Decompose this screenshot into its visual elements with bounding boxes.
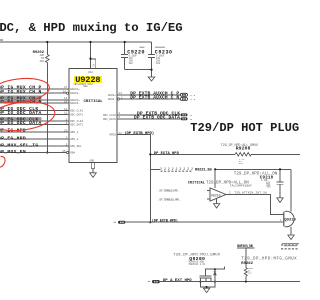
svg-text:DP_EG_ODC_DATA: DP_EG_ODC_DATA bbox=[0, 120, 42, 126]
connector pill ODC CLK bbox=[181, 113, 188, 116]
body diode Q9280 bbox=[214, 269, 216, 281]
svg-text:ODC_DAT1: ODC_DAT1 bbox=[70, 113, 83, 116]
svg-text:ODC_CLK0: ODC_CLK0 bbox=[103, 114, 116, 117]
svg-text:TALCOMPS1BUF: TALCOMPS1BUF bbox=[230, 185, 252, 188]
wire net DP_EG_ODC_DATA to pin 8 bbox=[0, 124, 69, 126]
svg-text:AUX0+: AUX0+ bbox=[108, 94, 116, 97]
gnd stem below loop bbox=[206, 287, 208, 288]
junction C9220/rail bbox=[124, 41, 126, 43]
junction VDD/rail bbox=[89, 41, 91, 43]
resistor R9282 bbox=[244, 268, 247, 277]
connector pill EXTB HPD bbox=[118, 221, 125, 224]
pin bubble DAUX1- bbox=[66, 92, 68, 94]
wire HPD vertical to EXTB line bbox=[149, 154, 151, 222]
svg-text:24: 24 bbox=[92, 63, 95, 66]
wire net DP_EG_MUX_CH_P to pin 13 bbox=[0, 99, 69, 101]
resistor R9202 bbox=[46, 55, 50, 63]
capacitor C9220 bbox=[121, 54, 128, 57]
tiny marks above cap labels bbox=[140, 47, 166, 48]
svg-text:HPD0: HPD0 bbox=[109, 134, 116, 137]
wire buffer inputs bbox=[207, 191, 210, 200]
svg-text:12: 12 bbox=[64, 108, 68, 111]
svg-text:402: 402 bbox=[129, 62, 134, 65]
ground under C9210 bbox=[277, 198, 283, 203]
connector pill AUX P bbox=[180, 93, 187, 100]
svg-text:DAUX1-: DAUX1- bbox=[70, 92, 80, 95]
wire top power rail bbox=[0, 41, 152, 43]
source loop bbox=[200, 282, 215, 287]
ground under IC bbox=[90, 173, 97, 178]
wire capacitor C9230 drop bbox=[151, 42, 153, 70]
junction caps-gnd bbox=[150, 69, 152, 71]
svg-text:11: 11 bbox=[64, 112, 68, 115]
svg-text:DP_EXTB_AUXCH_C_N: DP_EXTB_AUXCH_C_N bbox=[130, 95, 179, 101]
svg-text:402: 402 bbox=[39, 60, 44, 63]
wire buffer power stub bbox=[214, 169, 216, 188]
net labels left bbox=[0, 85, 42, 155]
wire VDD drop bbox=[90, 42, 92, 69]
wire buffer gnd stem bbox=[216, 198, 218, 203]
svg-text:CRITICAL: CRITICAL bbox=[84, 100, 104, 104]
svg-text:ODC_DAT0: ODC_DAT0 bbox=[103, 118, 116, 121]
U9228 highlight bbox=[74, 76, 102, 83]
red annotation ellipse 1 bbox=[0, 76, 51, 106]
svg-text:(DP_EXTB_HPD): (DP_EXTB_HPD) bbox=[124, 131, 154, 136]
transistor Q9210 bbox=[284, 211, 294, 235]
junction R9202/rail bbox=[46, 41, 48, 43]
tiny table marks top-right of bottom section bbox=[281, 244, 298, 249]
svg-text:DP_IG_ODC_DATA: DP_IG_ODC_DATA bbox=[0, 110, 42, 116]
junction R9202 to DP_MUX_EN bbox=[46, 151, 48, 153]
svg-text:Q9210: Q9210 bbox=[284, 218, 296, 222]
wire net DP_EG_HPD to pin 7 bbox=[0, 138, 69, 140]
junction C9210 bbox=[279, 168, 281, 170]
junction Q9280 top bbox=[214, 268, 216, 270]
node 0 top-left rail stub mark bbox=[0, 39, 3, 40]
svg-text:17: 17 bbox=[64, 86, 68, 89]
svg-text:ODC, & HPD muxing to IG/EG: ODC, & HPD muxing to IG/EG bbox=[0, 21, 183, 35]
wire net DP_MUX_EN to pin 25 bbox=[0, 152, 66, 154]
op-amp U9228 IC body bbox=[69, 69, 117, 163]
connector pill DP_A_EXT_HPD bbox=[152, 280, 160, 283]
wire net DP_EG_ODC_CLK to pin 9 bbox=[0, 120, 69, 122]
resistor R9202 labels bbox=[33, 51, 45, 63]
junction R9221/buffer bbox=[214, 168, 216, 170]
svg-text:AUX0-: AUX0- bbox=[108, 98, 116, 101]
svg-text:20: 20 bbox=[63, 91, 67, 94]
pin box VDD pin 24 bbox=[91, 59, 96, 69]
wire net DP_EXTB_ODC_DATA pin 5 bbox=[117, 118, 180, 120]
svg-text:HPD_2: HPD_2 bbox=[70, 138, 78, 141]
svg-text:14: 14 bbox=[64, 101, 68, 104]
IC internal pin names left bbox=[70, 88, 83, 155]
svg-text:T29_ATTKIN_INT_3A: T29_ATTKIN_INT_3A bbox=[234, 191, 267, 195]
svg-text:DP_A_EXT_HPD: DP_A_EXT_HPD bbox=[163, 279, 192, 283]
svg-text:DP_EXTA_HPD: DP_EXTA_HPD bbox=[154, 152, 180, 156]
svg-text:DP_MUX_SEL_IG: DP_MUX_SEL_IG bbox=[0, 142, 38, 148]
wire net DP_IG_ODC_CLK to pin 12 bbox=[0, 110, 69, 112]
wire net DP_IG_HPD to pin 23 bbox=[0, 131, 69, 133]
svg-text:CRITICAL: CRITICAL bbox=[188, 182, 205, 186]
svg-text:T29/DP HOT PLUG: T29/DP HOT PLUG bbox=[190, 121, 299, 135]
wire Q9280 top bbox=[206, 267, 225, 276]
svg-text:25: 25 bbox=[62, 150, 66, 153]
wire R9221 row bbox=[150, 168, 291, 170]
junction Q9280 drain bbox=[199, 281, 201, 283]
red annotation mark bottom-left bbox=[0, 156, 5, 167]
junction HPD/EXTA bbox=[149, 153, 151, 155]
svg-text:HPD_1: HPD_1 bbox=[70, 131, 78, 134]
ground under buffer bbox=[214, 204, 220, 208]
channel bar bbox=[200, 277, 212, 279]
capacitor C9210 bbox=[277, 182, 284, 184]
svg-text:11 B: 11 B bbox=[190, 94, 196, 97]
junction R9282 bottom bbox=[245, 281, 247, 283]
pin bubble OE# bbox=[66, 151, 68, 153]
svg-text:R9282: R9282 bbox=[241, 262, 253, 266]
svg-text:402: 402 bbox=[156, 62, 161, 65]
wire net DP_IG_MUX_CH_N to pin 20 bbox=[0, 92, 66, 94]
junction Q9280 diode bbox=[214, 281, 216, 283]
svg-text:T29_DP_HPD:MFG_GMUX: T29_DP_HPD:MFG_GMUX bbox=[241, 258, 297, 262]
wire Q9210 collector bbox=[290, 169, 292, 211]
wire DP_EXTA_HPD bbox=[150, 153, 300, 155]
junction EXTB line bbox=[149, 221, 151, 223]
svg-text:16: 16 bbox=[190, 114, 193, 117]
svg-text:. DP_TIMEBUS1_HPD .: . DP_TIMEBUS1_HPD . bbox=[157, 198, 182, 201]
svg-text:GND: GND bbox=[90, 160, 95, 163]
svg-text:DP_EXTB_ODC_DATA: DP_EXTB_ODC_DATA bbox=[134, 114, 180, 120]
ground under Q9280 loop bbox=[203, 288, 209, 292]
gate bar bbox=[200, 275, 212, 277]
wire R9202 vertical drop bbox=[46, 42, 48, 153]
svg-text:11 B: 11 B bbox=[190, 98, 196, 101]
svg-text:OE#: OE# bbox=[70, 152, 75, 155]
svg-text:R9221_EG: R9221_EG bbox=[195, 168, 213, 172]
ground under Q9210 bbox=[288, 235, 294, 240]
wire capacitor C9220 drop bbox=[124, 42, 126, 70]
svg-text:24: 24 bbox=[118, 92, 122, 95]
svg-text:402: 402 bbox=[248, 272, 253, 275]
svg-text:402: 402 bbox=[239, 162, 244, 165]
svg-text:(DP_EXTB_HPD): (DP_EXTB_HPD) bbox=[152, 219, 178, 224]
wire cap bottom join bbox=[125, 69, 152, 71]
svg-text:DP_EG_HPD: DP_EG_HPD bbox=[0, 135, 26, 141]
op-amp U9210 buffer bbox=[210, 188, 226, 201]
wire net DP_EG_MUX_CH_N to pin 14 bbox=[0, 102, 69, 104]
wire DP_A_EXT_HPD line bbox=[160, 281, 300, 283]
tiny part text under Q9210 bbox=[282, 243, 299, 246]
transistor Q9280 bbox=[200, 267, 225, 289]
svg-text:BGA: BGA bbox=[84, 85, 89, 88]
ground under caps bbox=[151, 70, 153, 77]
wire net DP_EXTB_ODC_CLK pin 2 bbox=[117, 114, 180, 116]
dark net bars rows 3,4,7 bbox=[0, 96, 42, 122]
svg-text:R9206: R9206 bbox=[236, 146, 251, 152]
junction VDD pinbox bbox=[89, 58, 91, 60]
svg-text:. DP_TIMEBUS_HPD .: . DP_TIMEBUS_HPD . bbox=[157, 190, 181, 193]
wire net DP_IG_ODC_DATA to pin 11 bbox=[0, 113, 69, 115]
capacitor C9230 bbox=[148, 54, 155, 57]
wire HPD0 out bbox=[117, 135, 150, 155]
svg-text:DAUX1+: DAUX1+ bbox=[70, 88, 80, 91]
junction loop/gnd bbox=[206, 286, 208, 288]
svg-text:DAUX2-: DAUX2- bbox=[70, 102, 80, 105]
wire GND stem bbox=[92, 169, 94, 173]
wire C9210 drop bbox=[279, 169, 281, 198]
svg-text:402: 402 bbox=[267, 186, 272, 189]
wire net DP_MUX_SEL_IG to pin 3 bbox=[0, 145, 69, 147]
wire net DP_EXTB_AUXCH_C_N pin 1 bbox=[120, 98, 180, 100]
svg-text:DP_IG_MUX_CH_N: DP_IG_MUX_CH_N bbox=[0, 89, 42, 95]
pin numbers left bbox=[62, 86, 67, 153]
wire DP_EXTB_HPD long line bbox=[126, 221, 284, 223]
pin bubble AUX0- bbox=[117, 98, 119, 100]
svg-text:ODC_DAT2: ODC_DAT2 bbox=[70, 124, 83, 127]
channel stubs bbox=[200, 278, 211, 282]
wire net DP_IG_MUX_CH_P to pin 17 bbox=[0, 88, 69, 90]
svg-text:GPU_SEL: GPU_SEL bbox=[70, 145, 82, 148]
resistor R9206 bbox=[235, 153, 251, 157]
wire buffer output bbox=[226, 195, 284, 215]
svg-text:Vdd: Vdd bbox=[88, 70, 93, 74]
IC internal pin names right bbox=[103, 94, 116, 137]
svg-text:23: 23 bbox=[64, 130, 68, 133]
svg-text:U9210: U9210 bbox=[211, 193, 221, 197]
wire net DP_EXTB_AUXCH_C_P pin 18 bbox=[117, 94, 180, 96]
pin numbers right bbox=[118, 92, 123, 135]
svg-text:DP_MUX_EN: DP_MUX_EN bbox=[0, 149, 26, 155]
svg-text:SSD6614 1.6V: SSD6614 1.6V bbox=[189, 263, 206, 266]
red annotation ellipse 2 bbox=[0, 99, 56, 135]
svg-text:ODC_CLK1: ODC_CLK1 bbox=[70, 110, 83, 113]
